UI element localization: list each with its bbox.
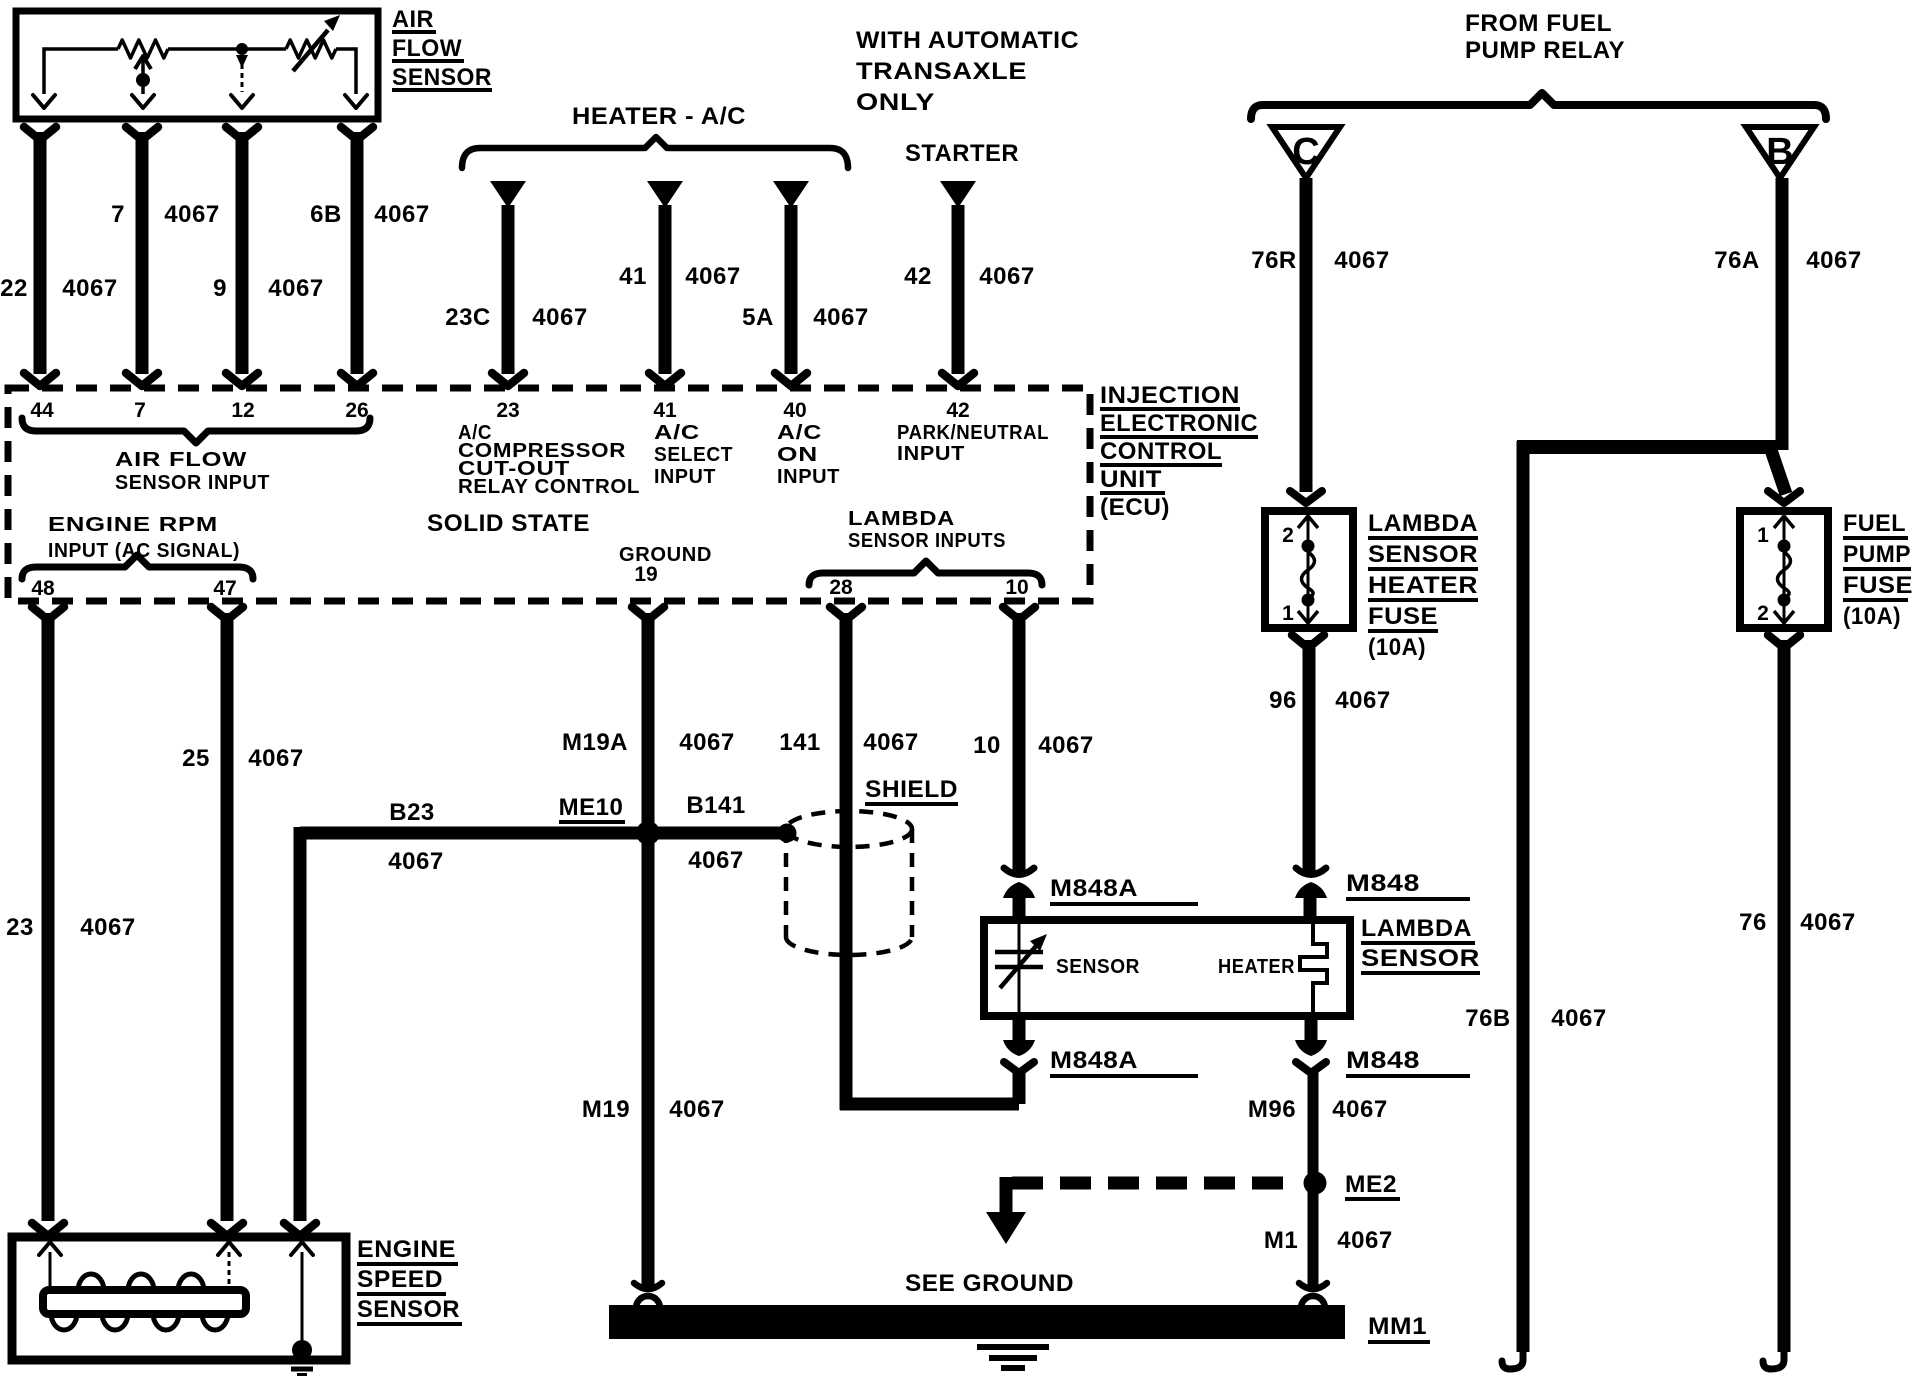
svg-text:A/C: A/C [654, 422, 700, 444]
svg-text:HEATER: HEATER [1218, 956, 1295, 978]
lambda sensor inputs bracket [809, 561, 1042, 585]
svg-text:INPUT: INPUT [897, 443, 965, 465]
pin 12 [231, 399, 254, 422]
label 4067 (wire B23) [388, 848, 443, 875]
pin 42 (ECU) [946, 399, 969, 422]
svg-text:1: 1 [1757, 524, 1769, 547]
svg-text:4067: 4067 [1334, 247, 1389, 274]
connector B (triangle) [1746, 127, 1814, 178]
label M848A (bottom) [1050, 1047, 1198, 1076]
label M96 [1248, 1096, 1296, 1123]
svg-text:23: 23 [496, 399, 519, 422]
label 4067 (wire M96) [1332, 1096, 1387, 1123]
svg-text:GROUND: GROUND [619, 544, 712, 566]
label 76 [1739, 909, 1767, 936]
svg-text:SENSOR: SENSOR [1368, 541, 1478, 568]
svg-text:10: 10 [1005, 576, 1028, 599]
svg-text:2: 2 [1757, 602, 1769, 625]
inductor coil (engine speed sensor) [43, 1274, 246, 1330]
svg-text:4067: 4067 [1551, 1005, 1606, 1032]
svg-text:4067: 4067 [1038, 732, 1093, 759]
lambda heater element [1300, 924, 1327, 1012]
node ME2 junction dot [1304, 1172, 1327, 1195]
wire 76 (4067) fuel pump fuse to fuel pump [1763, 635, 1800, 1369]
wire 25 (4067) ECU pin 47 to engine speed sensor [211, 607, 243, 1236]
label ENGINE SPEED SENSOR [357, 1236, 462, 1324]
svg-text:B23: B23 [389, 799, 435, 826]
svg-text:INJECTION: INJECTION [1100, 382, 1240, 409]
label B141 [686, 792, 745, 819]
svg-text:ME10: ME10 [559, 794, 624, 821]
label 22 [0, 275, 28, 302]
wire B141 (4067) from ME10 to shield [648, 827, 783, 840]
svg-text:HEATER: HEATER [1368, 572, 1478, 599]
fuse element (fuel pump fuse) [1774, 515, 1794, 624]
svg-text:ENGINE RPM: ENGINE RPM [48, 514, 218, 536]
svg-text:ELECTRONIC: ELECTRONIC [1100, 410, 1258, 437]
wire 42 (4067) starter to ECU pin 42 [940, 181, 976, 386]
svg-text:7: 7 [111, 201, 125, 228]
wire B23 (4067) from node ME10 to engine speed sensor [284, 827, 648, 1237]
svg-text:4067: 4067 [1337, 1227, 1392, 1254]
svg-text:4067: 4067 [248, 745, 303, 772]
label 4067 (wire 10) [1038, 732, 1093, 759]
svg-text:PUMP RELAY: PUMP RELAY [1465, 37, 1625, 64]
label A/C ON INPUT [777, 422, 840, 488]
wire 7 (4067) air flow sensor wiper to ECU pin 7 [126, 127, 158, 386]
svg-text:ON: ON [777, 444, 818, 466]
engine speed sensor pin leads [50, 1252, 302, 1345]
svg-text:44: 44 [30, 399, 54, 422]
air flow sensor box [16, 11, 378, 119]
wire 96 (4067) lambda sensor heater fuse to lambda sensor [1292, 635, 1324, 924]
pin 26 [345, 399, 368, 422]
label 4067 (wire M19) [669, 1096, 724, 1123]
wire 22 (4067) air flow sensor pin 1 to ECU pin 44 [24, 127, 56, 386]
svg-text:STARTER: STARTER [905, 140, 1019, 167]
label HEATER - A/C [572, 103, 746, 130]
label B23 [389, 799, 435, 826]
svg-text:C: C [1292, 131, 1319, 173]
svg-text:4067: 4067 [62, 275, 117, 302]
variable resistor arrow through R2 [293, 15, 340, 71]
label 4067 (wire 76B) [1551, 1005, 1606, 1032]
svg-text:ONLY: ONLY [856, 89, 935, 116]
label 5A [742, 304, 774, 331]
air flow sensor pin arrows [33, 95, 367, 108]
svg-text:LAMBDA: LAMBDA [848, 508, 955, 530]
node ME10 junction dot [636, 821, 660, 845]
label LAMBDA SENSOR INPUTS [848, 508, 1006, 552]
svg-text:41: 41 [619, 263, 647, 290]
pin 40 [783, 399, 806, 422]
svg-text:(ECU): (ECU) [1100, 494, 1170, 521]
svg-text:4067: 4067 [863, 729, 918, 756]
pin 28 [829, 576, 853, 599]
label 4067 (wire 6B) [374, 201, 429, 228]
label 76B [1465, 1005, 1511, 1032]
svg-text:23: 23 [6, 914, 34, 941]
svg-text:SOLID STATE: SOLID STATE [427, 510, 590, 537]
ground symbol (MM1 bar) [977, 1347, 1049, 1368]
heater A/C bracket [462, 137, 848, 168]
svg-text:4067: 4067 [80, 914, 135, 941]
connector at MM1 (wire M1) [1299, 1283, 1327, 1308]
pin 19 [634, 563, 657, 586]
label SOLID STATE [427, 510, 590, 537]
label M848 (top) [1346, 870, 1470, 899]
resistor R1 (air flow sensor) [118, 40, 168, 58]
wire 76R (4067) connector C to lambda sensor heater fuse [1290, 178, 1322, 503]
label AIR FLOW SENSOR [392, 6, 492, 91]
label 4067 (wire 141) [863, 729, 918, 756]
label SEE GROUND [905, 1270, 1074, 1297]
svg-text:INPUT: INPUT [654, 466, 716, 488]
svg-text:4067: 4067 [388, 848, 443, 875]
svg-text:4067: 4067 [1806, 247, 1861, 274]
label HEATER (lambda box) [1218, 956, 1295, 978]
svg-text:22: 22 [0, 275, 28, 302]
pin 23 [496, 399, 519, 422]
svg-text:LAMBDA: LAMBDA [1361, 915, 1472, 942]
svg-text:41: 41 [653, 399, 677, 422]
junction dot (node on sensor wire) [236, 43, 248, 55]
label 4067 (wire 25) [248, 745, 303, 772]
svg-text:12: 12 [231, 399, 254, 422]
svg-text:25: 25 [182, 745, 210, 772]
svg-text:HEATER - A/C: HEATER - A/C [572, 103, 746, 130]
svg-text:AIR: AIR [392, 6, 434, 33]
svg-text:INPUT: INPUT [777, 466, 840, 488]
svg-text:UNIT: UNIT [1100, 466, 1162, 493]
pin 41 (ECU) [653, 399, 677, 422]
svg-text:RELAY CONTROL: RELAY CONTROL [458, 476, 640, 498]
label 4067 (wire 5A) [813, 304, 868, 331]
label 42 [904, 263, 932, 290]
svg-text:4067: 4067 [374, 201, 429, 228]
svg-text:10: 10 [973, 732, 1001, 759]
label 96 [1269, 687, 1297, 714]
pin 10 [1005, 576, 1028, 599]
fuse pin 2 (fuel pump fuse) [1757, 602, 1769, 625]
svg-text:B: B [1766, 131, 1793, 173]
svg-text:MM1: MM1 [1368, 1313, 1427, 1340]
connector M848 (bottom, heater ground) [1295, 1012, 1327, 1073]
ground symbol (engine speed sensor) [285, 1361, 319, 1375]
svg-text:6B: 6B [310, 201, 342, 228]
wire 76A (4067) connector B to fuel pump fuse [1768, 178, 1800, 503]
label FROM FUEL PUMP RELAY [1465, 10, 1625, 64]
dashed tap wire with arrow (pin 12 drop) [236, 55, 248, 92]
wire 10 (4067) ECU pin 10 to lambda sensor [1003, 607, 1035, 924]
svg-text:26: 26 [345, 399, 368, 422]
label M19A [562, 729, 628, 756]
svg-text:7: 7 [134, 399, 146, 422]
svg-text:A/C: A/C [777, 422, 822, 444]
svg-text:M848A: M848A [1050, 875, 1138, 902]
svg-text:4067: 4067 [164, 201, 219, 228]
pin 7 [134, 399, 146, 422]
svg-text:4067: 4067 [1800, 909, 1855, 936]
potentiometer wiper arrow to R1 [135, 56, 151, 94]
label 41 [619, 263, 647, 290]
wire M19A/M19 (4067) ECU pin 19 ground wire [632, 607, 664, 1286]
wire 141 (4067) ECU pin 28 to lambda sensor (shielded) [830, 607, 1026, 1111]
svg-text:(10A): (10A) [1368, 634, 1426, 661]
svg-text:SELECT: SELECT [654, 444, 733, 466]
svg-text:76B: 76B [1465, 1005, 1511, 1032]
label 25 [182, 745, 210, 772]
svg-text:19: 19 [634, 563, 657, 586]
wire 23 (4067) ECU pin 48 to engine speed sensor [32, 607, 64, 1236]
svg-text:M848A: M848A [1050, 1047, 1138, 1074]
svg-text:76: 76 [1739, 909, 1767, 936]
svg-text:AIR FLOW: AIR FLOW [115, 449, 247, 471]
label GROUND [619, 544, 712, 566]
svg-text:4067: 4067 [685, 263, 740, 290]
label ME10 [559, 794, 625, 822]
engine speed sensor box [12, 1237, 346, 1360]
label 4067 (wire B141) [688, 847, 743, 874]
svg-text:28: 28 [829, 576, 853, 599]
svg-text:23C: 23C [445, 304, 491, 331]
fuse pin 1 (fuel pump fuse) [1757, 524, 1769, 547]
label 23 (wire) [6, 914, 34, 941]
label 9 [213, 275, 227, 302]
engine rpm bracket [22, 555, 253, 579]
label A/C COMPRESSOR CUT-OUT RELAY CONTROL [458, 422, 640, 498]
svg-text:FUSE: FUSE [1368, 603, 1438, 630]
svg-text:SENSOR: SENSOR [1361, 945, 1480, 972]
svg-text:4067: 4067 [813, 304, 868, 331]
svg-text:4067: 4067 [268, 275, 323, 302]
svg-text:SENSOR INPUT: SENSOR INPUT [115, 472, 270, 494]
svg-text:FROM FUEL: FROM FUEL [1465, 10, 1612, 37]
svg-text:SENSOR: SENSOR [357, 1296, 460, 1323]
connector M848 (top, heater supply) [1295, 868, 1327, 898]
label 23C [445, 304, 491, 331]
variable resistor R2 (air flow sensor) [286, 40, 336, 58]
svg-text:SHIELD: SHIELD [865, 776, 958, 803]
label 4067 (wire 76) [1800, 909, 1855, 936]
label 7 [111, 201, 125, 228]
air flow input bracket [22, 418, 370, 443]
label A/C SELECT INPUT [654, 422, 733, 488]
fuse pin 2 (lambda fuse) [1282, 524, 1294, 547]
svg-text:(10A): (10A) [1843, 603, 1901, 630]
svg-text:SENSOR: SENSOR [1056, 956, 1140, 978]
fuel pump fuse box [1740, 511, 1828, 628]
svg-text:FLOW: FLOW [392, 35, 462, 62]
svg-text:47: 47 [213, 577, 236, 600]
svg-text:LAMBDA: LAMBDA [1368, 510, 1478, 537]
label M19 [582, 1096, 630, 1123]
fuel pump relay bracket [1251, 93, 1826, 119]
lambda sensor element (variable sensor symbol) [995, 924, 1047, 1012]
connector at MM1 (wire M19) [634, 1283, 662, 1308]
label 4067 (wire 7) [164, 201, 219, 228]
svg-text:ME2: ME2 [1345, 1171, 1397, 1198]
label ME2 [1345, 1171, 1400, 1199]
svg-text:42: 42 [946, 399, 969, 422]
pin 47 [213, 577, 236, 600]
svg-text:M848: M848 [1346, 1047, 1420, 1074]
label FUEL PUMP FUSE (10A) [1843, 510, 1912, 630]
svg-text:5A: 5A [742, 304, 774, 331]
label M1 [1264, 1227, 1298, 1254]
fuse pin 1 (lambda fuse) [1282, 602, 1294, 625]
svg-text:42: 42 [904, 263, 932, 290]
svg-text:2: 2 [1282, 524, 1294, 547]
pin 44 [30, 399, 54, 422]
label SHIELD [865, 776, 958, 804]
connector M848A (top, sensor signal) [1003, 868, 1035, 898]
svg-text:1: 1 [1282, 602, 1294, 625]
label 141 [779, 729, 821, 756]
label WITH AUTOMATIC TRANSAXLE ONLY [856, 27, 1079, 116]
label M848 (bottom) [1346, 1047, 1470, 1076]
label STARTER [905, 140, 1019, 167]
connector C (triangle) [1272, 127, 1340, 178]
svg-text:96: 96 [1269, 687, 1297, 714]
svg-text:SENSOR INPUTS: SENSOR INPUTS [848, 530, 1006, 552]
wire 76B (4067) branch to fuel pump [1502, 440, 1776, 1369]
label MM1 [1368, 1313, 1430, 1342]
ground bus bar MM1 [609, 1305, 1345, 1339]
svg-text:76A: 76A [1714, 247, 1760, 274]
label 4067 (wire 22) [62, 275, 117, 302]
label 4067 (wire M1) [1337, 1227, 1392, 1254]
svg-text:B141: B141 [686, 792, 745, 819]
svg-text:9: 9 [213, 275, 227, 302]
label ENGINE RPM INPUT (AC SIGNAL) [48, 514, 240, 562]
svg-text:SENSOR: SENSOR [392, 64, 492, 91]
wire 41 (4067) heater-A/C to ECU pin 41 [647, 181, 683, 386]
label 4067 (wire 42) [979, 263, 1034, 290]
label 4067 (wire 76A) [1806, 247, 1861, 274]
junction dot (wiper tap) [136, 73, 150, 87]
label LAMBDA SENSOR HEATER FUSE (10A) [1368, 510, 1478, 661]
svg-text:4067: 4067 [688, 847, 743, 874]
svg-text:SEE GROUND: SEE GROUND [905, 1270, 1074, 1297]
svg-text:4067: 4067 [679, 729, 734, 756]
label 4067 (wire 23) [80, 914, 135, 941]
svg-text:4067: 4067 [979, 263, 1034, 290]
label 4067 (wire 76R) [1334, 247, 1389, 274]
label 76A [1714, 247, 1760, 274]
label AIR FLOW SENSOR INPUT [115, 449, 270, 494]
lambda sensor box [984, 920, 1350, 1016]
label 4067 (wire 9) [268, 275, 323, 302]
svg-text:PARK/NEUTRAL: PARK/NEUTRAL [897, 422, 1049, 444]
svg-text:M848: M848 [1346, 870, 1420, 897]
label 4067 (wire M19A) [679, 729, 734, 756]
label LAMBDA SENSOR (box title) [1361, 915, 1480, 973]
wire 9 (4067) air flow sensor to ECU pin 12 [226, 127, 258, 386]
svg-text:40: 40 [783, 399, 806, 422]
svg-text:M96: M96 [1248, 1096, 1296, 1123]
svg-text:TRANSAXLE: TRANSAXLE [856, 58, 1027, 85]
svg-text:4067: 4067 [1335, 687, 1390, 714]
shield (dashed cylinder) around wire 141 [786, 811, 912, 955]
lambda sensor heater fuse box [1265, 511, 1353, 628]
label M848A (top) [1050, 875, 1198, 904]
svg-text:WITH AUTOMATIC: WITH AUTOMATIC [856, 27, 1079, 54]
svg-text:48: 48 [31, 577, 55, 600]
ground reference arrow (see ground) [986, 1212, 1026, 1244]
svg-text:M19: M19 [582, 1096, 630, 1123]
wire M96/M1 (4067) lambda sensor to ground MM1 [1308, 1070, 1319, 1286]
wire 6B (4067) air flow sensor to ECU pin 26 [341, 127, 373, 386]
svg-text:M1: M1 [1264, 1227, 1298, 1254]
svg-text:M19A: M19A [562, 729, 628, 756]
svg-text:4067: 4067 [532, 304, 587, 331]
ECU (injection electronic control unit) dashed box [8, 388, 1090, 601]
svg-text:FUSE: FUSE [1843, 572, 1912, 599]
wire 5A (4067) heater-A/C to ECU pin 40 [773, 181, 809, 386]
svg-text:76R: 76R [1251, 247, 1297, 274]
svg-text:FUEL: FUEL [1843, 510, 1906, 537]
connector M848A (bottom, sensor signal) [1003, 1012, 1035, 1073]
svg-text:PUMP: PUMP [1843, 541, 1911, 568]
node B141 junction dot [778, 824, 797, 843]
svg-text:4067: 4067 [1332, 1096, 1387, 1123]
svg-text:CONTROL: CONTROL [1100, 438, 1222, 465]
air flow sensor internal wire [44, 49, 356, 94]
svg-text:ENGINE: ENGINE [357, 1236, 456, 1263]
label 76R [1251, 247, 1297, 274]
fuse element (lambda sensor heater fuse) [1298, 515, 1318, 624]
svg-text:4067: 4067 [669, 1096, 724, 1123]
wire 23C (4067) heater-A/C to ECU pin 23 [490, 181, 526, 386]
label 10 (wire) [973, 732, 1001, 759]
dashed ground reference wire to ME2 [1000, 1177, 1299, 1212]
label 6B [310, 201, 342, 228]
ground dot (engine speed sensor) [292, 1340, 312, 1360]
pin 48 [31, 577, 55, 600]
label 4067 (wire 23C) [532, 304, 587, 331]
label INJECTION ELECTRONIC CONTROL UNIT (ECU) [1100, 382, 1258, 521]
label 4067 (wire 96) [1335, 687, 1390, 714]
label PARK/NEUTRAL INPUT [897, 422, 1049, 465]
label 4067 (wire 41) [685, 263, 740, 290]
label SENSOR (lambda box) [1056, 956, 1140, 978]
engine speed sensor pin arrows [39, 1242, 313, 1255]
svg-text:141: 141 [779, 729, 821, 756]
svg-text:SPEED: SPEED [357, 1266, 443, 1293]
